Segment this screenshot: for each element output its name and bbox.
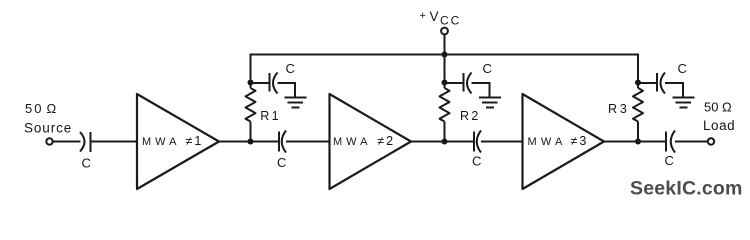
capacitor C bypass 3 xyxy=(657,73,665,94)
label C bypass 1 xyxy=(286,61,295,76)
svg-text:Ω: Ω xyxy=(47,101,57,116)
svg-text:CC: CC xyxy=(440,14,461,28)
wire amp3 out to node xyxy=(604,141,638,143)
wire node1 to C2 xyxy=(251,141,280,143)
label MWA #2 xyxy=(333,134,395,148)
wire R3 bottom to signal line xyxy=(637,122,639,142)
wire Vcc rail to R2 xyxy=(444,55,446,89)
wire node2 to C3 xyxy=(445,141,475,143)
wire bypass 3 to ground xyxy=(665,83,683,98)
svg-text:50: 50 xyxy=(704,100,718,115)
capacitor C interstage 2 xyxy=(474,131,481,153)
svg-text:R1: R1 xyxy=(260,109,281,123)
label R1 xyxy=(260,109,281,123)
wire R1 bottom to signal line xyxy=(250,122,252,142)
junction dot rail/Vcc xyxy=(442,52,448,58)
label C input xyxy=(82,156,91,171)
label MWA #3 xyxy=(528,134,589,148)
watermark SeekIC.com xyxy=(630,178,743,200)
svg-text:C: C xyxy=(277,155,286,170)
label R3 xyxy=(608,102,630,116)
wire bypass 1 to ground xyxy=(278,83,296,98)
source terminal circle xyxy=(46,138,52,144)
svg-text:≠3: ≠3 xyxy=(571,134,589,148)
label 50 ohm load xyxy=(703,100,735,134)
capacitor C bypass 1 xyxy=(270,73,278,94)
wire C3 to amp 3 xyxy=(481,141,523,143)
op-amp U2 MWA #2 xyxy=(330,94,412,189)
wire bypass branch 2 xyxy=(445,82,464,84)
capacitor C interstage 1 xyxy=(279,131,286,153)
svg-text:MWA: MWA xyxy=(142,136,180,148)
node +Vcc label xyxy=(420,9,462,28)
ground bypass 2 xyxy=(479,98,501,108)
wire bypass 2 to ground xyxy=(472,83,490,98)
resistor R3 xyxy=(633,88,643,121)
label C output xyxy=(665,153,674,168)
resistor R2 xyxy=(440,88,450,121)
+Vcc terminal circle xyxy=(441,28,448,35)
svg-text:MWA: MWA xyxy=(333,136,371,148)
ground bypass 3 xyxy=(673,98,695,108)
junction dot node 2 xyxy=(442,139,448,145)
wire bypass branch 1 xyxy=(251,82,270,84)
wire C2 to amp 2 xyxy=(286,141,330,143)
label R2 xyxy=(460,109,481,123)
svg-text:50: 50 xyxy=(25,101,43,116)
wire supply rail xyxy=(251,54,639,56)
capacitor C bypass 2 xyxy=(464,73,472,94)
wire rail drop to R3 xyxy=(637,54,639,89)
svg-text:≠2: ≠2 xyxy=(377,134,395,148)
wire amp1 out to node xyxy=(219,141,251,143)
junction node R1 top xyxy=(248,80,254,86)
svg-text:SeekIC.com: SeekIC.com xyxy=(630,178,743,200)
svg-text:C: C xyxy=(286,61,295,76)
wire C out to load terminal xyxy=(675,141,708,143)
resistor R1 xyxy=(246,88,256,121)
svg-text:≠1: ≠1 xyxy=(186,134,204,148)
svg-text:R3: R3 xyxy=(608,102,630,116)
svg-text:Load: Load xyxy=(703,118,735,133)
svg-text:C: C xyxy=(483,61,492,76)
svg-text:R2: R2 xyxy=(460,109,481,123)
junction dot node 1 xyxy=(248,139,254,145)
junction node R3 top xyxy=(635,80,641,86)
wire Vcc stem down to rail xyxy=(444,34,446,54)
svg-text:Ω: Ω xyxy=(722,100,732,115)
op-amp U1 MWA #1 xyxy=(137,94,219,189)
label C interstage 2 xyxy=(472,154,481,169)
svg-text:C: C xyxy=(665,153,674,168)
wire bypass branch 3 xyxy=(638,82,657,84)
wire rail drop to R1 xyxy=(250,54,252,89)
label C bypass 3 xyxy=(678,61,687,76)
label C bypass 2 xyxy=(483,61,492,76)
load terminal circle xyxy=(708,138,714,144)
capacitor C output xyxy=(666,131,675,153)
capacitor C input xyxy=(80,132,91,152)
svg-text:C: C xyxy=(82,156,91,171)
svg-text:C: C xyxy=(678,61,687,76)
svg-text:V: V xyxy=(430,9,439,24)
junction node R2 top xyxy=(442,80,448,86)
junction dot node 3 xyxy=(635,139,641,145)
wire amp2 out to node xyxy=(411,141,445,143)
wire R2 bottom to signal line xyxy=(444,122,446,142)
wire C1 to amp 1 xyxy=(91,141,138,143)
wire node3 to C out xyxy=(638,141,666,143)
svg-text:Source: Source xyxy=(24,121,72,136)
op-amp U3 MWA #3 xyxy=(523,94,605,189)
label C interstage 1 xyxy=(277,155,286,170)
label MWA #1 xyxy=(142,134,203,148)
label 50 ohm source xyxy=(24,101,72,136)
ground bypass 1 xyxy=(285,98,307,108)
svg-text:MWA: MWA xyxy=(528,136,567,148)
svg-text:+: + xyxy=(420,10,426,22)
wire source to C1 xyxy=(54,141,81,143)
svg-text:C: C xyxy=(472,154,481,169)
